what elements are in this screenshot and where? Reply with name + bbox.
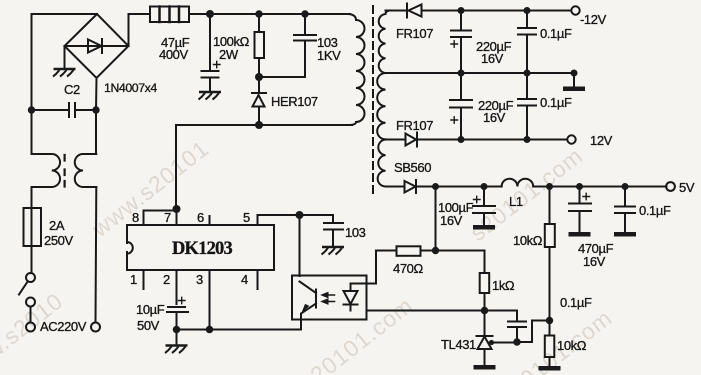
- TL431 ref wire: [489, 342, 517, 344]
- wire LED anode up to 470R: [351, 251, 395, 284]
- wire 12V rail: [386, 139, 568, 141]
- svg-text:5: 5: [243, 210, 250, 225]
- svg-text:50V: 50V: [137, 318, 160, 333]
- junction node mid ground: [571, 70, 578, 77]
- switch S1: [26, 273, 35, 282]
- svg-text:FR107: FR107: [396, 26, 433, 41]
- diode HER107: [258, 77, 260, 93]
- ground mid rail: [573, 73, 575, 87]
- junction node 10uF ground rail: [173, 326, 181, 334]
- junction node 5V 10k: [546, 183, 553, 190]
- resistor 470R: [397, 246, 421, 256]
- svg-text:1kΩ: 1kΩ: [492, 278, 515, 293]
- junction node 0.1uF fb bottom: [513, 338, 520, 345]
- svg-text:2: 2: [163, 272, 170, 287]
- svg-text:HER107: HER107: [271, 94, 318, 109]
- wire AC line1 down to choke: [31, 110, 33, 154]
- wire snubber link: [259, 76, 305, 78]
- resistor 10k lower: [549, 321, 551, 336]
- junction node fusible/47uF: [206, 10, 214, 18]
- wire pin5 to node: [258, 214, 300, 216]
- fusible resistor box: [150, 7, 189, 23]
- transformer T1 primary winding: [348, 14, 365, 125]
- svg-text:12V: 12V: [590, 133, 613, 148]
- svg-text:1KV: 1KV: [317, 48, 341, 63]
- junction node 5V 100uF: [481, 183, 488, 190]
- capacitor 0.1uF upper: [518, 11, 536, 74]
- junction node C2 left: [28, 106, 35, 113]
- junction node pin7: [173, 205, 181, 213]
- capacitor 100uF 16V: [473, 187, 495, 226]
- wire opto emitter to ground rail: [300, 320, 302, 330]
- junction node -12V 0.1uF: [524, 7, 531, 14]
- ground stub at bridge left vertex: [64, 46, 66, 69]
- optocoupler U2 box: [292, 276, 367, 320]
- capacitor 220uF 16V upper: [451, 11, 471, 74]
- capacitor C2: [32, 103, 97, 117]
- ground mid rail (bar): [563, 87, 585, 92]
- wire AC line2 down: [95, 187, 98, 323]
- common-mode choke right winding: [75, 154, 97, 187]
- IC U1 DK1203 body: [127, 225, 274, 270]
- capacitor C3 47uF 400V: [202, 14, 219, 92]
- resistor 10k upper: [549, 187, 551, 225]
- svg-text:8: 8: [132, 210, 139, 225]
- wire top DC rail: [210, 13, 350, 15]
- diode SB560: [405, 181, 416, 193]
- svg-text:2A: 2A: [49, 218, 65, 233]
- junction node feedback 1k: [481, 307, 489, 315]
- common-mode choke left winding: [32, 154, 61, 187]
- wire ground rail under DK1203: [177, 329, 301, 331]
- svg-text:16V: 16V: [483, 110, 506, 125]
- ground 47uF (hatched): [199, 92, 222, 100]
- wire AC line2 riser: [95, 110, 97, 154]
- wire AC line1 top: left riser to bridge top vertex: [32, 14, 98, 110]
- capacitor 0.1uF second: [518, 73, 536, 140]
- capacitor 0.1uF output: [615, 187, 635, 233]
- wire node up to 5V rail: [435, 187, 437, 251]
- svg-text:470Ω: 470Ω: [393, 261, 423, 276]
- ground bridge left (hatched): [53, 69, 76, 77]
- svg-text:-12V: -12V: [580, 12, 607, 27]
- junction node C2 right: [92, 106, 99, 113]
- svg-text:L1: L1: [509, 194, 523, 209]
- wire bridge bottom vertex down to C2 node: [95, 78, 98, 110]
- wire node to 1k: [436, 251, 485, 274]
- svg-text:www.s20101: www.s20101: [86, 135, 213, 243]
- capacitor 470uF 16V: [569, 187, 591, 233]
- wire feedback rail: [367, 310, 518, 312]
- svg-text:C2: C2: [64, 82, 80, 97]
- capacitor 103 1KV snubber: [294, 14, 316, 77]
- bridge rectifier D1 1N4007x4 diamond: [65, 14, 129, 78]
- terminal 12V: [567, 135, 575, 143]
- pin 8 stub: [143, 211, 145, 226]
- junction node 5V 0.1uF: [622, 183, 629, 190]
- junction node snubber: [255, 73, 263, 81]
- junction node 103 top: [301, 10, 308, 17]
- diode FR107 positive rail: [406, 134, 417, 146]
- wire -12V rail: [386, 10, 572, 12]
- wire primary bottom rail: [176, 124, 352, 126]
- capacitor 220uF 16V lower: [450, 73, 472, 140]
- wire mid ground rail: [386, 72, 575, 74]
- svg-text:FR107: FR107: [396, 118, 433, 133]
- junction node 10k lower top: [546, 317, 553, 324]
- junction node HER107 bottom: [255, 121, 263, 129]
- svg-text:AC220V: AC220V: [40, 319, 87, 334]
- terminal -12V: [571, 6, 579, 14]
- svg-text:7: 7: [164, 210, 171, 225]
- ground 0.1uF output (bar): [614, 232, 636, 237]
- svg-text:10kΩ: 10kΩ: [557, 338, 587, 353]
- ground stub 10uF: [176, 330, 178, 346]
- junction node pin3 ground rail: [206, 326, 214, 334]
- TL431 U3: [484, 311, 486, 337]
- junction node -12V 220uF: [458, 7, 465, 14]
- svg-text:5V: 5V: [679, 180, 695, 195]
- svg-text:16V: 16V: [481, 51, 504, 66]
- svg-text:1: 1: [130, 272, 137, 287]
- optocoupler phototransistor: [315, 290, 317, 308]
- svg-text:0.1µF: 0.1µF: [540, 95, 572, 110]
- ground 470uF (bar): [569, 232, 591, 237]
- junction node mid 220uF: [458, 70, 465, 77]
- junction node 12V 0.1uF: [524, 136, 531, 143]
- svg-text:2W: 2W: [219, 47, 239, 62]
- capacitor 103 at pin5: [324, 223, 343, 247]
- diode FR107 negative rail: [406, 4, 408, 18]
- capacitor 0.1uF feedback: [508, 311, 526, 343]
- ground 10k lower (bar): [539, 366, 561, 371]
- svg-text:16V: 16V: [583, 254, 606, 269]
- transformer T1 secondary winding middle: [377, 73, 385, 139]
- svg-text:250V: 250V: [44, 233, 73, 248]
- junction node mid 0.1uF: [524, 70, 531, 77]
- svg-text:10kΩ: 10kΩ: [513, 233, 543, 248]
- wire left riser to DK1203 pin7: [175, 125, 178, 225]
- choke core dashes: [63, 155, 65, 187]
- junction node pin5 net: [296, 211, 304, 219]
- fuse F1 2A 250V: [24, 208, 42, 246]
- svg-text:0.1µF: 0.1µF: [560, 295, 592, 310]
- junction node 5V 470R riser: [432, 183, 439, 190]
- svg-text:TL431: TL431: [441, 337, 476, 352]
- bridge internal diode: [65, 45, 129, 47]
- wire choke left to fuse: [31, 187, 33, 208]
- wire 5V rail right: [533, 186, 666, 188]
- svg-text:www.s20101.com: www.s20101.com: [248, 292, 418, 375]
- pin 4 stub: [257, 270, 259, 289]
- wire pin8 link: [144, 211, 177, 226]
- capacitor 10uF 50V at pin2: [167, 307, 188, 330]
- wire bridge right vertex to fusible resistor: [129, 14, 151, 46]
- wire node down to optocoupler collector: [299, 215, 301, 276]
- resistor 1k: [480, 273, 490, 293]
- pin 1 stub: [143, 270, 145, 289]
- pin 2 stub: [176, 270, 178, 304]
- junction node 100k top: [255, 10, 262, 17]
- transformer T1 secondary winding lower: [378, 140, 386, 187]
- wire step to lower 10k: [517, 321, 550, 343]
- wire fusible resistor to node: [189, 13, 210, 15]
- ground 10uF (hatched): [165, 346, 188, 354]
- svg-text:0.1µF: 0.1µF: [540, 26, 572, 41]
- wire node to 103 cap: [300, 215, 334, 223]
- pin 7 stub: [176, 209, 178, 225]
- optocoupler LED: [350, 284, 352, 292]
- svg-text:4: 4: [241, 272, 248, 287]
- junction node TL431 ref: [489, 340, 494, 345]
- svg-text:DK1203: DK1203: [172, 239, 233, 259]
- svg-text:400V: 400V: [159, 47, 188, 62]
- wire 5V rail left: [386, 186, 502, 188]
- optocoupler light arrows: [325, 295, 335, 302]
- wire 1k to feedback rail: [484, 293, 486, 311]
- junction node 5V 470uF: [576, 183, 583, 190]
- pin 5 stub: [257, 215, 259, 225]
- ground TL431 (bar): [474, 365, 496, 370]
- svg-text:1N4007x4: 1N4007x4: [104, 81, 157, 95]
- ground 100uF (bar): [473, 225, 495, 230]
- terminal 5V: [666, 182, 675, 191]
- ground 103 pin5 (hatched): [322, 247, 345, 255]
- resistor R1 100k 2W: [258, 14, 260, 32]
- terminal AC left: [26, 323, 35, 332]
- junction node 470R: [432, 247, 439, 254]
- svg-text:SB560: SB560: [394, 160, 431, 175]
- svg-text:3: 3: [196, 272, 203, 287]
- wire fuse to switch: [31, 246, 33, 273]
- svg-text:103: 103: [345, 225, 366, 240]
- inductor L1: [502, 179, 534, 187]
- wire 470R to node: [421, 250, 436, 252]
- transformer T1 secondary winding upper: [379, 11, 390, 74]
- junction node 12V 220uF: [458, 136, 465, 143]
- svg-text:6: 6: [197, 210, 204, 225]
- svg-text:16V: 16V: [440, 213, 463, 228]
- pin 3 stub: [209, 270, 211, 330]
- transformer core dashed line: [372, 6, 374, 193]
- svg-text:0.1µF: 0.1µF: [639, 203, 671, 218]
- terminal AC right: [91, 323, 100, 332]
- svg-text:10µF: 10µF: [136, 302, 165, 317]
- pin 6 stub: [209, 216, 211, 225]
